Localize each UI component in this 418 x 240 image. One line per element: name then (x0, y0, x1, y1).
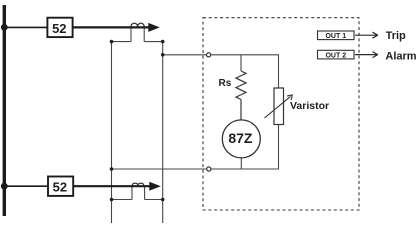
svg-text:Alarm: Alarm (385, 50, 416, 62)
svg-text:52: 52 (53, 180, 67, 195)
svg-text:Varistor: Varistor (290, 100, 329, 112)
svg-text:87Z: 87Z (228, 130, 253, 146)
svg-text:Trip: Trip (386, 30, 406, 42)
svg-text:OUT 2: OUT 2 (325, 52, 346, 59)
svg-text:Rs: Rs (219, 78, 232, 89)
svg-text:OUT 1: OUT 1 (325, 33, 346, 40)
svg-text:52: 52 (52, 21, 66, 36)
